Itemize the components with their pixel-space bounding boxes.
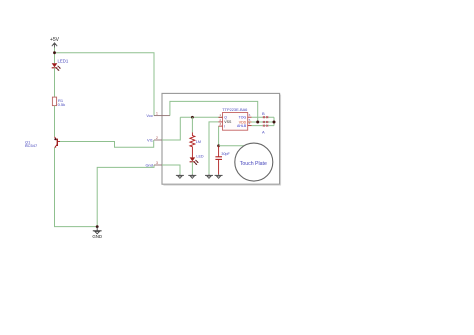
svg-text:TOG: TOG	[239, 116, 247, 120]
pin 1 Vcc of module	[146, 111, 170, 118]
ground symbol (LED net)	[188, 174, 196, 178]
label R1 value 0.5k	[58, 98, 66, 107]
port label B	[262, 111, 265, 116]
label C1 value 30pF	[221, 152, 230, 156]
wire module Gnd pin to ground	[97, 165, 154, 227]
wire AHLB row	[252, 125, 275, 127]
ground symbol (VSS net)	[205, 174, 213, 178]
svg-text:TTP223E-BA6: TTP223E-BA6	[222, 107, 247, 112]
wire VI1 pin to chip Q output row	[162, 117, 180, 140]
wire junction to touch plate	[219, 145, 246, 147]
wire Gnd pin to in-box ground	[162, 165, 180, 174]
svg-text:VI1: VI1	[147, 138, 154, 143]
svg-text:AHLB: AHLB	[237, 124, 247, 128]
pin stub AHLB (4)	[248, 122, 252, 126]
port pin mark B row	[263, 116, 268, 118]
wire VDD row	[252, 121, 275, 123]
svg-text:LED: LED	[196, 154, 204, 158]
wire chip VSS to ground	[209, 122, 219, 174]
svg-text:30pF: 30pF	[221, 152, 230, 156]
chip U1 TTP223E-BA6	[223, 113, 248, 131]
pin 3 Gnd of module	[145, 161, 163, 168]
wire tie bracket TOG-VDD-AHLB	[273, 117, 275, 125]
wire +5V branch to module Vcc	[55, 53, 155, 116]
junction at +5V branch	[53, 51, 56, 54]
label GND	[92, 234, 102, 239]
power flag +5V	[52, 43, 57, 48]
wire chip Q output row	[180, 116, 222, 118]
wire Vcc pin to chip VDD (over the top)	[170, 101, 258, 122]
port label A	[262, 130, 265, 135]
pin stub I (3)	[219, 122, 223, 126]
svg-text:3: 3	[156, 161, 158, 165]
junction VDD bracket	[273, 121, 276, 124]
wire LED1 to R1	[54, 68, 56, 97]
svg-text:GND: GND	[92, 234, 102, 239]
wire +5V vertical	[54, 48, 56, 64]
svg-text:Gnd: Gnd	[145, 163, 153, 168]
junction at capacitor top	[217, 144, 220, 147]
net +5V label	[50, 37, 60, 43]
svg-text:I: I	[224, 124, 225, 128]
svg-text:A: A	[262, 130, 265, 135]
pin 2 VI1 of module	[147, 136, 163, 143]
label U1 TTP223E-BA6	[222, 107, 247, 112]
svg-text:1: 1	[219, 113, 221, 117]
capacitor C1 30pF	[215, 146, 222, 175]
chip pin name VDD	[239, 120, 247, 124]
svg-text:Q: Q	[224, 116, 227, 120]
LED in module	[190, 157, 199, 165]
wire TOG row	[252, 116, 275, 118]
resistor R2 1M	[190, 133, 195, 158]
module box	[162, 93, 281, 185]
pin stub VDD (5)	[248, 118, 252, 122]
wire junction to R2	[191, 117, 193, 132]
ground symbol (capacitor net)	[215, 174, 223, 178]
svg-text:BC547: BC547	[25, 143, 38, 148]
svg-text:LED1: LED1	[58, 58, 69, 63]
wire Q1 base to module pin VI1	[60, 140, 154, 147]
svg-text:VSS: VSS	[224, 120, 232, 124]
ground symbol (Gnd pin net)	[176, 174, 184, 178]
chip pin name Q	[224, 116, 227, 120]
svg-text:2: 2	[156, 136, 158, 140]
port pin mark VDD row	[263, 121, 268, 123]
svg-text:+5V: +5V	[50, 37, 60, 43]
LED LED1	[52, 63, 61, 71]
chip pin name I	[224, 124, 225, 128]
label R2 value 1M	[196, 140, 201, 144]
label Q1 BC547	[25, 139, 38, 148]
wire LED to ground	[191, 162, 193, 175]
chip pin name AHLB	[237, 124, 247, 128]
svg-text:6: 6	[249, 113, 251, 117]
label LED (in module)	[196, 154, 204, 158]
junction at R2 top	[191, 116, 194, 119]
svg-text:1M: 1M	[196, 140, 201, 144]
label Touch Plate	[240, 161, 267, 167]
wire chip I pin down	[218, 126, 220, 146]
svg-text:4: 4	[249, 122, 251, 126]
pin stub VSS (2)	[219, 118, 223, 122]
svg-text:B: B	[262, 111, 265, 116]
chip pin name VSS	[224, 120, 232, 124]
ground GND	[93, 227, 102, 234]
svg-text:1: 1	[156, 111, 158, 115]
svg-text:Vcc: Vcc	[146, 113, 153, 118]
svg-text:Touch Plate: Touch Plate	[240, 161, 267, 167]
port pin mark A row	[263, 125, 268, 127]
transistor Q1	[54, 137, 60, 148]
label LED1	[58, 58, 69, 63]
junction at ground node	[96, 225, 99, 228]
chip pin name TOG	[239, 116, 247, 120]
pin stub Q (1)	[219, 113, 223, 117]
touch plate circle	[235, 143, 273, 181]
pin stub TOG (6)	[248, 113, 252, 117]
svg-text:3: 3	[219, 122, 221, 126]
junction VDD column	[256, 121, 259, 124]
wire R1 to Q1 collector	[54, 106, 56, 137]
resistor R1	[52, 97, 56, 106]
wire Q1 emitter to ground	[55, 148, 98, 227]
svg-text:0.5k: 0.5k	[58, 102, 66, 107]
